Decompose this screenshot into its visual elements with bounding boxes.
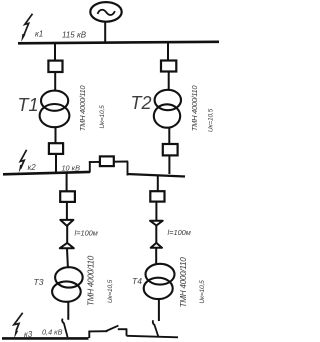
svg-text:к2: к2 <box>28 163 37 172</box>
svg-text:к3: к3 <box>24 330 33 339</box>
svg-text:ТМН 4000/110: ТМН 4000/110 <box>190 85 199 132</box>
svg-text:Uк=10,5: Uк=10,5 <box>107 279 114 303</box>
svg-text:Т2: Т2 <box>131 93 152 113</box>
svg-text:10 кВ: 10 кВ <box>62 164 81 173</box>
svg-text:Uк=10,5: Uк=10,5 <box>99 105 106 129</box>
svg-text:l=100м: l=100м <box>75 229 98 238</box>
svg-text:Uк=10,5: Uк=10,5 <box>208 108 215 132</box>
svg-text:Т1: Т1 <box>18 95 39 115</box>
svg-text:l=100м: l=100м <box>168 228 191 237</box>
svg-text:ТМН 4000/110: ТМН 4000/110 <box>179 257 188 308</box>
svg-text:Т4: Т4 <box>132 276 142 286</box>
svg-text:115 кВ: 115 кВ <box>62 30 87 39</box>
svg-text:к1: к1 <box>35 30 43 39</box>
svg-text:ТМН 4000/110: ТМН 4000/110 <box>87 255 96 306</box>
svg-text:Uк=10,5: Uк=10,5 <box>199 280 206 304</box>
svg-text:0,4 кВ: 0,4 кВ <box>42 327 63 336</box>
svg-text:Т3: Т3 <box>34 277 44 287</box>
svg-text:ТМН 4000/110: ТМН 4000/110 <box>78 85 87 132</box>
